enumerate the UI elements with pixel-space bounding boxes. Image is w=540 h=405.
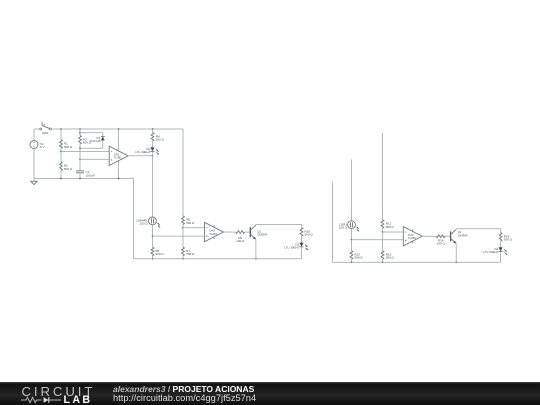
resistor R1 <box>60 140 73 149</box>
wire <box>255 239 257 259</box>
svg-text:R14100 Ω: R14100 Ω <box>437 239 446 246</box>
op-amp OA1 <box>109 146 128 165</box>
wire <box>352 239 404 241</box>
svg-text:R11500 Ω: R11500 Ω <box>386 222 395 229</box>
CircuitLab logo text CIRCUIT <box>22 384 96 399</box>
svg-text:R10500 Ω: R10500 Ω <box>305 229 314 236</box>
wire <box>79 173 81 179</box>
wire <box>34 178 134 180</box>
wire <box>152 225 154 236</box>
wire <box>455 243 457 262</box>
junction <box>351 262 353 264</box>
svg-text:R15500 Ω: R15500 Ω <box>504 234 513 241</box>
node LED2 <box>152 155 154 157</box>
wire <box>52 128 184 130</box>
wire <box>500 251 502 262</box>
switch SW1 <box>40 121 52 134</box>
transistor Q1 <box>250 225 267 239</box>
junction <box>182 258 184 260</box>
op-amp OA3 <box>403 227 422 246</box>
resistor R13 <box>381 251 394 260</box>
wire <box>152 151 154 217</box>
resistor R6 <box>151 247 164 256</box>
wire <box>422 235 436 237</box>
node A <box>60 151 62 153</box>
LED D4 <box>483 247 507 255</box>
wire <box>351 240 353 251</box>
wire <box>60 148 62 151</box>
wire <box>153 235 205 237</box>
svg-text:LDR1100 Ω: LDR1100 Ω <box>339 222 348 229</box>
svg-text:R4500 Ω: R4500 Ω <box>156 134 165 141</box>
svg-text:C1100 µF: C1100 µF <box>86 170 96 177</box>
wire <box>382 259 384 262</box>
wire <box>128 155 152 157</box>
resistor R12 <box>350 251 363 260</box>
wire <box>332 261 500 263</box>
wire <box>134 258 302 260</box>
resistor R9 <box>236 231 245 243</box>
diode D1 <box>90 136 105 143</box>
wire <box>183 227 205 229</box>
svg-text:Q12N3904: Q12N3904 <box>257 230 267 237</box>
svg-text:R1500 Ω: R1500 Ω <box>64 142 73 149</box>
LED D3 <box>284 242 308 250</box>
wire <box>152 129 154 133</box>
svg-text:D2LTL-30EHJ: D2LTL-30EHJ <box>135 147 150 154</box>
wire <box>61 151 109 153</box>
wire <box>182 129 184 216</box>
wire <box>60 129 62 140</box>
wire <box>382 228 384 232</box>
wire <box>445 235 451 237</box>
svg-text:D11N4148: D11N4148 <box>90 136 101 143</box>
wire <box>301 236 303 242</box>
wire <box>301 247 303 259</box>
wire <box>102 140 104 148</box>
wire <box>382 133 384 220</box>
wire <box>79 159 81 170</box>
wire <box>152 141 154 147</box>
junction <box>118 178 120 180</box>
photoresistor LDR1 <box>339 221 359 232</box>
svg-text:SW1: SW1 <box>42 131 49 135</box>
wire <box>331 183 333 263</box>
logo resistor-diode symbol <box>21 395 63 405</box>
svg-text:R7500 Ω: R7500 Ω <box>186 249 195 256</box>
svg-text:R2500 Ω: R2500 Ω <box>64 164 73 171</box>
junction <box>60 178 62 180</box>
resistor R2 <box>60 162 73 171</box>
wire <box>456 228 500 230</box>
svg-text:V15 V: V15 V <box>40 142 45 149</box>
user / project title <box>113 384 254 394</box>
wire <box>500 241 502 247</box>
wire <box>182 228 184 247</box>
junction <box>79 178 81 180</box>
resistor R15 <box>499 233 512 242</box>
junction <box>79 128 81 130</box>
LED D2 <box>135 147 159 155</box>
svg-text:R6500 Ω: R6500 Ω <box>156 249 165 256</box>
svg-text:R13500 Ω: R13500 Ω <box>386 252 395 259</box>
wire <box>383 231 404 233</box>
node minus3 <box>382 231 384 233</box>
wire <box>118 161 120 178</box>
junction <box>152 128 154 130</box>
svg-text:OA2TL081: OA2TL081 <box>209 229 217 236</box>
wire <box>182 256 184 259</box>
junction <box>382 262 384 264</box>
junction <box>455 262 457 264</box>
svg-text:LDR#RL100 Ω: LDR#RL100 Ω <box>136 219 148 226</box>
wire <box>152 256 154 259</box>
wire <box>80 158 109 160</box>
junction <box>60 128 62 130</box>
wire <box>351 159 353 221</box>
wire <box>33 129 35 141</box>
transistor Q2 <box>451 229 468 243</box>
wire <box>500 229 502 233</box>
footer bar <box>0 382 540 405</box>
resistor R7 <box>182 247 195 256</box>
svg-text:D4LTL-30EHJ: D4LTL-30EHJ <box>483 247 498 254</box>
wire <box>256 223 302 225</box>
wire <box>60 152 62 162</box>
svg-text:R5500 Ω: R5500 Ω <box>186 218 195 225</box>
node minus2 <box>182 227 184 229</box>
resistor R10 <box>300 228 313 237</box>
svg-text:OA1TL081: OA1TL081 <box>114 153 122 160</box>
wire <box>245 231 251 233</box>
svg-text:OA3TL081: OA3TL081 <box>408 233 416 240</box>
wire <box>455 228 457 231</box>
wire <box>382 232 384 251</box>
wire <box>33 149 35 179</box>
resistor R11 <box>381 220 394 229</box>
node B <box>79 147 81 149</box>
resistor R4 <box>151 133 165 142</box>
node plus2 <box>152 235 154 237</box>
node <box>79 132 81 134</box>
op-amp OA2 <box>205 222 224 241</box>
wire <box>351 229 353 240</box>
node B junction <box>79 159 81 161</box>
share url <box>113 393 256 403</box>
resistor R3 <box>79 136 92 145</box>
svg-text:D3LTL-30EHJ: D3LTL-30EHJ <box>284 242 299 249</box>
resistor R5 <box>182 216 195 225</box>
wire <box>133 179 135 259</box>
wire <box>79 148 81 159</box>
wire <box>60 170 62 178</box>
wire <box>224 231 236 233</box>
wire <box>255 223 257 226</box>
wire <box>80 132 103 134</box>
wire <box>79 144 81 148</box>
wire <box>118 129 120 150</box>
wire <box>34 128 40 130</box>
junction <box>255 258 257 260</box>
logo text LAB <box>64 394 93 405</box>
wire <box>152 236 154 247</box>
photoresistor RL <box>136 217 160 228</box>
capacitor C1 <box>76 170 95 177</box>
svg-text:R9100 Ω: R9100 Ω <box>236 236 245 243</box>
voltage source V1 <box>30 141 45 150</box>
ground <box>31 179 37 185</box>
node plus3 <box>351 239 353 241</box>
wire <box>182 225 184 228</box>
svg-text:R12500 Ω: R12500 Ω <box>355 252 364 259</box>
wire <box>102 133 104 137</box>
wire <box>80 147 103 149</box>
resistor R14 <box>436 235 445 246</box>
wire <box>79 129 81 136</box>
svg-text:Q22N3904: Q22N3904 <box>458 230 468 237</box>
wire <box>301 224 303 227</box>
wire <box>351 259 353 262</box>
junction <box>152 258 154 260</box>
junction <box>118 128 120 130</box>
